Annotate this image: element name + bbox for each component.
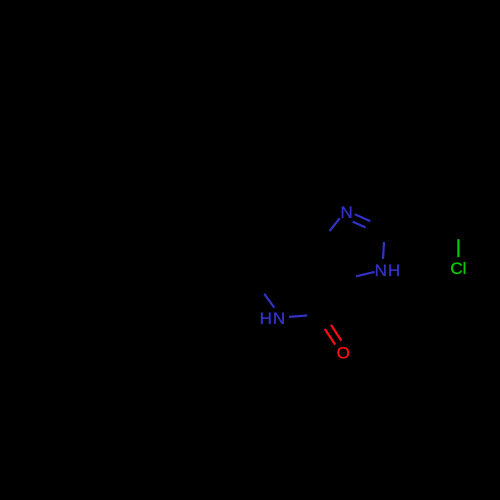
wire: bond C7-N(amide) blue half: [264, 294, 274, 308]
svg-text:Cl: Cl: [450, 259, 466, 278]
svg-text:H: H: [260, 309, 272, 328]
svg-text:O: O: [337, 344, 350, 363]
wire: bond C2-N3 blue half: [383, 242, 384, 259]
wire: bond N1=C2 inner line blue half: [353, 222, 366, 228]
wire: bond N1-C5 blue half: [330, 218, 340, 231]
wire: bond CH2-Cl green half: [457, 239, 459, 257]
svg-text:N: N: [273, 309, 285, 328]
svg-text:N: N: [340, 203, 352, 222]
wire: bond N3-C4 blue half: [356, 272, 375, 276]
wire: bond C6=O line B red half: [331, 325, 341, 341]
wire: bond C6=O line A red half: [325, 329, 336, 345]
wire: bond N(amide)-C6 blue half: [289, 316, 307, 317]
wire: bond N1=C2 outer line blue half: [355, 214, 371, 221]
svg-text:N: N: [375, 261, 387, 280]
svg-text:H: H: [388, 261, 400, 280]
